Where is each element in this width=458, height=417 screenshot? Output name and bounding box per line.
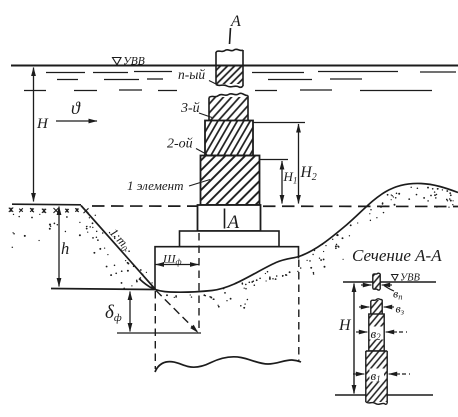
svg-text:Сечение А-А: Сечение А-А bbox=[352, 246, 442, 265]
svg-text:A: A bbox=[230, 13, 241, 30]
svg-text:H: H bbox=[36, 116, 49, 132]
svg-text:ϑ: ϑ bbox=[71, 98, 81, 118]
svg-text:H: H bbox=[338, 317, 352, 334]
svg-text:УВВ: УВВ bbox=[400, 273, 420, 284]
svg-text:h: h bbox=[61, 239, 69, 258]
svg-text:2-ой: 2-ой bbox=[167, 137, 193, 152]
svg-text:п-ый: п-ый bbox=[178, 67, 205, 82]
svg-text:УВВ: УВВ bbox=[123, 56, 145, 68]
svg-text:1 элемент: 1 элемент bbox=[127, 178, 184, 193]
svg-text:3-й: 3-й bbox=[180, 101, 200, 116]
svg-text:А: А bbox=[226, 212, 240, 233]
